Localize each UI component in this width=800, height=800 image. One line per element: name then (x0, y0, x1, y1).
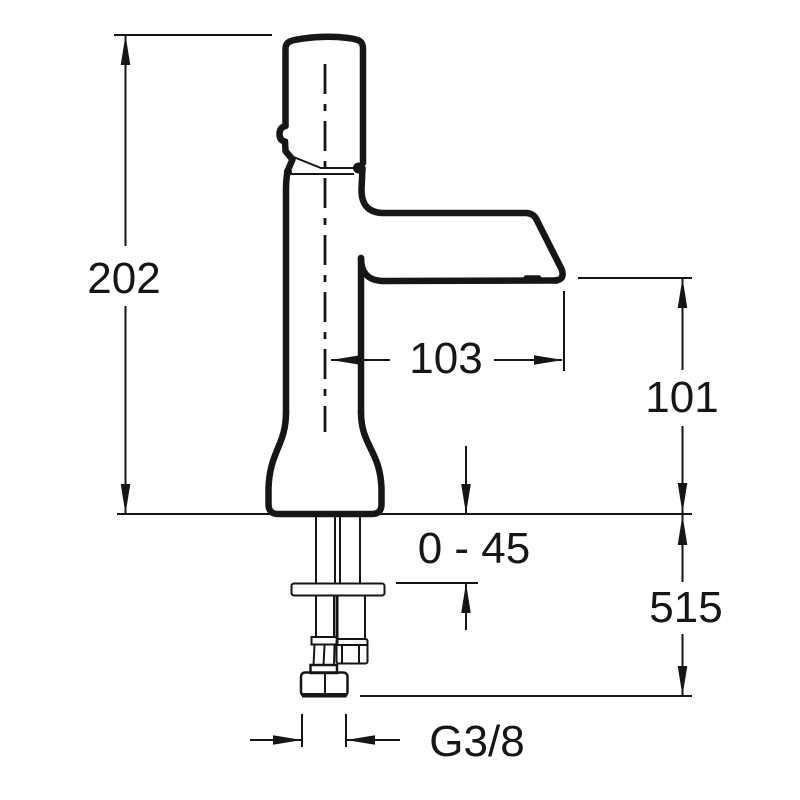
arrow down 101 bottom (678, 483, 688, 513)
arrow up 515 top (678, 515, 688, 545)
svg-text:103: 103 (409, 334, 482, 383)
hex nut facet line (324, 673, 326, 695)
dimension line 202 vertical (125, 36, 127, 514)
left tube below flange (315, 596, 317, 637)
gap for 515 (647, 582, 725, 634)
svg-text:101: 101 (645, 373, 718, 422)
body left edge with flared base (286, 171, 288, 413)
dashed centerline (324, 64, 327, 432)
right pipe (339, 517, 341, 583)
svg-text:G3/8: G3/8 (429, 717, 524, 766)
body right edge lower (358, 258, 365, 413)
dimension line 101/515 vertical right (682, 278, 684, 696)
handle skirt diagonal (291, 156, 354, 168)
left shank pipe (315, 517, 317, 583)
arrow up 202 top (121, 35, 131, 65)
leader line 0-45 lower arrow stem (465, 583, 467, 630)
right angle-stop nut (337, 639, 368, 664)
leader line 0-45 upper arrow stem (465, 446, 467, 514)
right valve body below flange (336, 596, 339, 639)
extension line G3/8 right (345, 714, 347, 747)
handle base line (289, 173, 354, 175)
hex nut bottom thick edge (302, 693, 347, 698)
arrow right G3/8 left (273, 735, 302, 745)
arrow down 202 bottom (121, 484, 131, 514)
handle right junction blob (353, 163, 364, 174)
left collar upper (312, 637, 338, 645)
extension line spout underside (101 top, y=278) (578, 277, 692, 279)
extension line bottom (515 bottom, y=696) (360, 695, 692, 697)
arrow left 103 (331, 355, 360, 365)
gap for 103 (390, 338, 494, 380)
gap for 101 (647, 370, 719, 426)
flared base outline with bottom bar (269, 412, 382, 514)
svg-text:202: 202 (87, 254, 160, 303)
deck / mounting surface extension line (117, 513, 692, 515)
arrow right 103 (534, 355, 563, 365)
right nut band line (337, 644, 367, 646)
gap for 202 (86, 246, 164, 306)
aerator bump on spout underside (526, 275, 539, 280)
extension line G3/8 left (301, 714, 303, 747)
dimension line G3/8 left segment (250, 739, 302, 741)
arrow up 0-45 lower (461, 583, 471, 613)
mounting flange (292, 584, 385, 596)
left collar lower (311, 665, 338, 673)
handle outline (286, 37, 364, 163)
left hose lines (314, 645, 315, 666)
arrow down 0-45 upper (461, 484, 471, 514)
handle lever bump (280, 126, 293, 171)
spout underside (361, 258, 557, 281)
svg-text:515: 515 (649, 583, 722, 632)
extension line below spout tip (103 right) (563, 291, 565, 371)
handle left junction blob (284, 168, 292, 176)
arrow left G3/8 right (346, 735, 375, 745)
dimension line 103 horizontal (331, 359, 562, 361)
extension line top (202 top, y=35) (114, 34, 272, 36)
dimension line G3/8 right segment (346, 739, 400, 741)
arrow down 515 bottom (678, 666, 688, 696)
extension line flange top (0-45 bottom) (396, 582, 478, 584)
arrow up 101 top (678, 278, 688, 308)
svg-text:0 - 45: 0 - 45 (418, 524, 531, 573)
body right edge upper / spout top (361, 168, 562, 281)
right nut facet lines (341, 645, 343, 663)
G3/8 hex nut (301, 673, 348, 697)
